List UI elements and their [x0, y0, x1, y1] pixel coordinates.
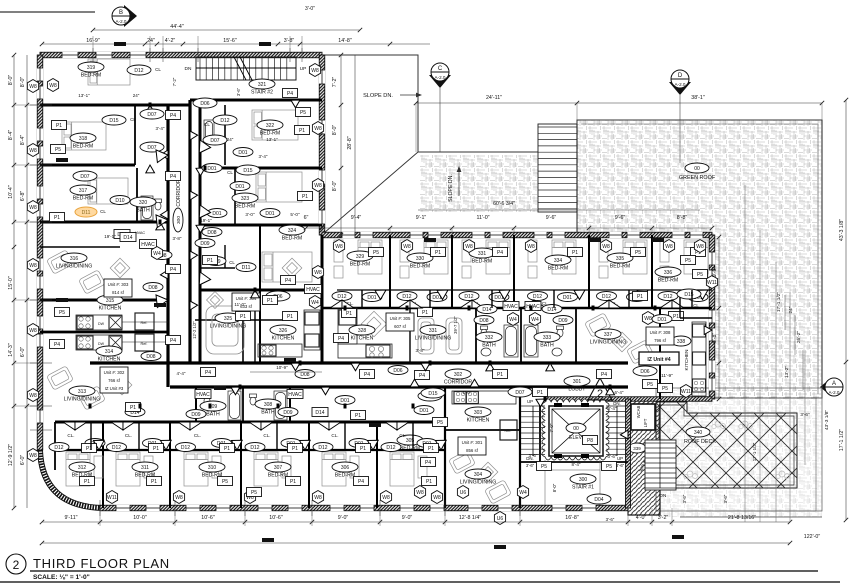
svg-text:6'-8": 6'-8": [20, 191, 26, 202]
svg-text:9'-0": 9'-0": [338, 515, 349, 521]
svg-text:BED-RM: BED-RM: [350, 262, 370, 268]
svg-text:HVAC: HVAC: [504, 304, 518, 310]
bath divider: [242, 320, 244, 363]
sheet bottom border line: [0, 581, 840, 583]
svg-text:KITCHEN: KITCHEN: [99, 306, 122, 312]
svg-text:308: 308: [264, 402, 273, 408]
svg-text:321: 321: [258, 82, 267, 88]
svg-text:9'-4": 9'-4": [351, 215, 362, 221]
svg-text:UP: UP: [527, 399, 533, 404]
svg-text:W8: W8: [433, 495, 441, 501]
sofa living 313: [47, 366, 74, 390]
svg-text:BED-RM: BED-RM: [610, 264, 630, 270]
svg-text:4'-4": 4'-4": [177, 371, 186, 376]
svg-text:P5: P5: [541, 464, 547, 470]
svg-text:796 sf: 796 sf: [654, 338, 667, 343]
table living 325: [206, 306, 244, 354]
svg-text:333: 333: [543, 335, 552, 341]
bed room 323: [256, 172, 302, 202]
svg-text:P1: P1: [360, 446, 366, 452]
svg-text:3'-6": 3'-6": [723, 494, 728, 503]
svg-text:D01: D01: [238, 150, 247, 156]
svg-text:13'-1": 13'-1": [78, 93, 90, 98]
svg-text:8'-0": 8'-0": [552, 483, 557, 492]
wall below room 319: [40, 104, 190, 107]
corridor 302 tags: [201, 368, 216, 377]
vertical corridor 300 walls: [166, 105, 169, 387]
stair 321 diagonal break: [234, 57, 246, 80]
svg-text:BATH: BATH: [261, 410, 275, 416]
svg-text:W4: W4: [531, 317, 539, 323]
svg-text:SLOPE DN.: SLOPE DN.: [363, 93, 393, 99]
bottom dimension chain: [42, 521, 790, 523]
svg-text:323: 323: [241, 196, 250, 202]
svg-text:3'-6": 3'-6": [682, 494, 687, 503]
svg-text:8'-0": 8'-0": [332, 181, 338, 192]
svg-text:15'-0": 15'-0": [8, 276, 14, 290]
svg-text:326: 326: [279, 328, 288, 334]
svg-text:P4: P4: [601, 372, 607, 378]
kitchen divider wall 315/314: [40, 331, 168, 334]
svg-text:3'-0": 3'-0": [245, 212, 255, 217]
door: [536, 399, 545, 407]
svg-text:3'-6": 3'-6": [800, 412, 810, 417]
door: [410, 379, 419, 387]
closet vertical stubs bottom row: [90, 422, 92, 450]
svg-text:D15: D15: [109, 118, 118, 124]
tag cluster below 323: [206, 257, 226, 266]
svg-text:D01: D01: [419, 408, 428, 414]
stair treads east of elevator: [606, 406, 628, 455]
kitchen 338 west wall: [659, 308, 661, 399]
slope roof outline: [322, 55, 538, 152]
svg-text:D08: D08: [300, 372, 309, 378]
svg-text:P1: P1: [428, 446, 434, 452]
room 305/304 area tags: [421, 388, 445, 398]
room 338 kitchen rotated label: [671, 336, 691, 346]
svg-text:W8: W8: [602, 244, 610, 250]
bath fixtures room 305 area: [0, 0, 1, 1]
door: [291, 363, 300, 371]
svg-text:Unit #: 302: Unit #: 302: [104, 370, 125, 375]
P tags west wing: [52, 121, 67, 130]
svg-text:BATH: BATH: [540, 343, 554, 349]
highlighted tag D11 (orange): [75, 207, 97, 217]
svg-text:320: 320: [139, 200, 148, 206]
svg-text:W8: W8: [382, 495, 390, 501]
svg-text:43'-3 1/8": 43'-3 1/8": [824, 410, 830, 431]
svg-text:8'-4": 8'-4": [8, 130, 14, 141]
svg-text:P1: P1: [224, 446, 230, 452]
door: [196, 225, 205, 233]
svg-text:P8: P8: [587, 438, 593, 444]
svg-text:P5: P5: [685, 258, 691, 264]
svg-text:W11: W11: [681, 389, 691, 395]
planter ornaments: [684, 421, 790, 479]
door: [421, 363, 430, 371]
svg-text:3'-6": 3'-6": [529, 453, 538, 458]
svg-text:P1: P1: [346, 311, 352, 317]
door: [160, 210, 168, 219]
svg-text:P5: P5: [55, 147, 61, 153]
svg-text:D09: D09: [283, 410, 292, 416]
svg-text:P1: P1: [153, 446, 159, 452]
tags above baths: [195, 390, 211, 399]
svg-text:15'-6": 15'-6": [223, 38, 237, 44]
svg-text:14'-8": 14'-8": [338, 38, 352, 44]
south band tags under closets: [477, 305, 497, 314]
sofa living 337: [585, 313, 612, 337]
svg-text:122'-0": 122'-0": [804, 534, 821, 540]
svg-text:Ref.: Ref.: [141, 342, 148, 346]
svg-text:D10: D10: [115, 198, 124, 204]
unit label box: [232, 293, 260, 311]
windows south wall: [116, 505, 130, 511]
roof deck tag 340: [686, 427, 710, 437]
svg-text:12'-2 1/2": 12'-2 1/2": [192, 321, 197, 339]
door: [160, 270, 168, 279]
svg-text:P1: P1: [435, 250, 441, 256]
unit label box: [386, 313, 414, 331]
svg-text:325: 325: [224, 316, 233, 322]
svg-text:334: 334: [554, 258, 563, 264]
svg-text:D01: D01: [563, 295, 572, 301]
section marker B A-2.0: [112, 5, 137, 27]
svg-text:332: 332: [485, 335, 494, 341]
bath 308 fixtures: [274, 391, 287, 420]
sofa living 316: [47, 250, 74, 274]
svg-text:D01: D01: [367, 295, 376, 301]
dining table unit 305: [361, 311, 386, 336]
svg-text:A-2.0: A-2.0: [829, 390, 840, 395]
bed room 324: [262, 252, 312, 282]
svg-text:BED-RM: BED-RM: [260, 131, 280, 137]
sofa living 304: [449, 450, 476, 474]
bedroom divider center band: [651, 235, 653, 308]
svg-text:P1: P1: [572, 250, 578, 256]
svg-text:7'-2": 7'-2": [332, 77, 338, 88]
svg-text:8'-4": 8'-4": [572, 462, 581, 467]
wall below room 323: [200, 224, 322, 227]
svg-text:8'-8": 8'-8": [677, 215, 688, 221]
svg-text:P5: P5: [697, 272, 703, 278]
exterior wall west: [37, 55, 43, 450]
top stair area tags: [283, 89, 298, 98]
bedroom divider bottom row: [240, 422, 242, 508]
svg-text:CL: CL: [204, 122, 210, 127]
svg-text:26'-2": 26'-2": [796, 331, 802, 344]
svg-text:3'-6": 3'-6": [236, 87, 241, 96]
bed room 319: [88, 59, 130, 85]
svg-text:331: 331: [429, 328, 438, 334]
svg-text:P1: P1: [151, 479, 157, 485]
svg-text:D14: D14: [547, 307, 556, 313]
svg-text:D14: D14: [482, 307, 491, 313]
svg-text:BED-RM: BED-RM: [472, 259, 492, 265]
slope dn arrow vertical: [458, 170, 460, 196]
closet wall 323: [234, 168, 236, 225]
svg-text:P4: P4: [170, 267, 176, 273]
door: [620, 430, 628, 439]
baths tags: [236, 312, 251, 321]
svg-text:10'-6": 10'-6": [201, 515, 215, 521]
windows east wall: [709, 252, 715, 265]
paver terrace area (light weave): [656, 388, 822, 517]
small solid wall markers: [114, 42, 126, 46]
svg-text:D12: D12: [250, 445, 259, 451]
svg-text:P4: P4: [364, 372, 370, 378]
svg-text:W11: W11: [107, 495, 117, 501]
svg-text:W8: W8: [175, 495, 183, 501]
kitchen 303 south wall: [445, 429, 520, 431]
svg-text:Unit #: 301: Unit #: 301: [462, 440, 483, 445]
wall east of corridor shaft: [199, 100, 202, 363]
svg-text:W8: W8: [29, 84, 37, 90]
svg-text:UP: UP: [300, 66, 307, 72]
svg-text:814 sf: 814 sf: [112, 290, 125, 295]
svg-text:LOBBY: LOBBY: [568, 387, 586, 393]
closet row south wall: [55, 449, 445, 451]
partition kitchen 328: [409, 308, 411, 363]
svg-text:LIVING/DINING: LIVING/DINING: [64, 397, 101, 403]
bath 332/333 divider: [520, 308, 522, 363]
exterior wall south: [100, 505, 628, 511]
svg-text:13'-2": 13'-2": [784, 366, 790, 379]
svg-text:P5: P5: [373, 250, 379, 256]
svg-text:A-2.0: A-2.0: [435, 75, 446, 80]
svg-text:P1: P1: [287, 314, 293, 320]
svg-text:W8: W8: [29, 205, 37, 211]
closet wall 318: [134, 105, 136, 165]
elevator tag 00: [566, 423, 586, 433]
svg-text:Unit #: 303: Unit #: 303: [108, 282, 129, 287]
svg-text:BED-RM: BED-RM: [235, 204, 255, 210]
svg-text:A-2.0: A-2.0: [675, 82, 686, 87]
svg-text:Ref.: Ref.: [141, 321, 148, 325]
door: [251, 290, 260, 298]
svg-text:CL.: CL.: [125, 433, 132, 438]
svg-text:331: 331: [478, 251, 487, 257]
svg-text:P1: P1: [299, 128, 305, 134]
svg-text:D07: D07: [147, 145, 156, 151]
svg-text:9'-6": 9'-6": [615, 215, 626, 221]
top dimension 44-4: [93, 29, 360, 31]
door: [190, 191, 198, 200]
corridor 302 north wall: [90, 361, 628, 364]
bottom row dressers: [94, 456, 103, 478]
door: [486, 363, 495, 371]
roof deck access stair: [645, 440, 676, 490]
left dimension chain: [13, 55, 15, 508]
svg-text:12'-8 1/4": 12'-8 1/4": [459, 515, 481, 521]
svg-text:P5: P5: [606, 464, 612, 470]
svg-text:D12: D12: [54, 445, 63, 451]
exterior stair from green roof: [538, 124, 577, 212]
center band bedroom tags: [333, 240, 344, 253]
svg-text:CL: CL: [229, 260, 235, 265]
kitchen 315 counters: [76, 313, 168, 330]
svg-text:318: 318: [79, 136, 88, 142]
svg-text:CL.: CL.: [194, 433, 201, 438]
svg-text:13'-1": 13'-1": [266, 137, 278, 142]
svg-text:302: 302: [454, 372, 463, 378]
section marker C A-2.0: [429, 63, 451, 88]
svg-text:338: 338: [677, 339, 686, 345]
long dim lines crossing green roof right band: [744, 185, 746, 522]
svg-text:BATH: BATH: [136, 208, 150, 214]
svg-text:10'-6": 10'-6": [269, 515, 283, 521]
svg-text:11'-0": 11'-0": [476, 215, 489, 221]
svg-text:P5: P5: [647, 382, 653, 388]
svg-text:CL.: CL.: [67, 433, 74, 438]
svg-text:BED-RM: BED-RM: [73, 196, 93, 202]
svg-text:D12: D12: [386, 445, 395, 451]
svg-text:P1: P1: [637, 294, 643, 300]
door: [321, 387, 330, 395]
svg-text:322: 322: [266, 123, 275, 129]
svg-text:W8: W8: [29, 263, 37, 269]
svg-text:303: 303: [474, 410, 483, 416]
section marker A A-2.0: [820, 378, 843, 396]
svg-text:U6: U6: [497, 516, 504, 522]
bedroom divider center band: [513, 235, 515, 308]
svg-text:ROOF DECK: ROOF DECK: [684, 439, 716, 445]
svg-text:D07: D07: [210, 138, 219, 144]
svg-text:D12: D12: [464, 294, 473, 300]
svg-text:P4: P4: [419, 373, 425, 379]
svg-text:2: 2: [597, 388, 603, 400]
svg-text:ELEV.: ELEV.: [569, 435, 583, 441]
extension ticks across exterior walls: [30, 104, 52, 106]
svg-text:P4: P4: [358, 479, 364, 485]
svg-text:335: 335: [616, 256, 625, 262]
svg-text:43'-3 1/8": 43'-3 1/8": [839, 219, 845, 241]
wall room 316 top: [40, 246, 120, 248]
svg-text:CORRIDOR: CORRIDOR: [176, 179, 182, 207]
big triangle sheet callout 2: [588, 378, 612, 400]
svg-text:P1: P1: [207, 258, 213, 264]
svg-text:P4: P4: [170, 174, 176, 180]
bath 309/308 walls: [195, 388, 197, 422]
svg-text:HVAC: HVAC: [526, 304, 540, 310]
green roof border: [577, 120, 822, 398]
svg-text:D01: D01: [235, 184, 244, 190]
corridor 302 south wall: [170, 385, 628, 388]
svg-text:D12: D12: [602, 294, 611, 300]
svg-text:BED-RM: BED-RM: [73, 144, 93, 150]
svg-text:HVAC: HVAC: [141, 242, 155, 248]
kitchen 326 counters: [258, 310, 320, 357]
svg-text:300: 300: [176, 216, 182, 224]
lobby north wall: [545, 397, 712, 402]
svg-text:P1: P1: [673, 314, 679, 320]
svg-text:5'-0": 5'-0": [290, 212, 300, 217]
svg-text:315: 315: [106, 298, 115, 304]
svg-text:P1: P1: [54, 215, 60, 221]
wheelchair lift box: [631, 404, 655, 430]
svg-text:3'-6": 3'-6": [608, 454, 617, 459]
svg-text:301: 301: [573, 379, 582, 385]
svg-text:Unit #: 308: Unit #: 308: [650, 330, 671, 335]
center band beds: [358, 240, 382, 274]
unit label box: [646, 327, 674, 345]
top dimension chain: [42, 43, 430, 45]
exterior wall north of center band: [322, 232, 712, 238]
svg-text:THIRD FLOOR PLAN: THIRD FLOOR PLAN: [33, 556, 170, 571]
bath 333 east wall: [575, 308, 577, 363]
svg-text:CORRIDOR: CORRIDOR: [444, 380, 472, 386]
svg-text:P4: P4: [425, 460, 431, 466]
svg-text:D: D: [678, 73, 683, 79]
svg-text:LIVING/DINING: LIVING/DINING: [460, 480, 497, 486]
svg-text:BED-RM: BED-RM: [410, 264, 430, 270]
svg-text:BATH: BATH: [206, 412, 220, 418]
bedroom divider center band: [588, 235, 590, 308]
svg-text:W8: W8: [49, 83, 57, 89]
extension lines left: [14, 104, 40, 106]
svg-text:11'-9": 11'-9": [661, 373, 673, 379]
svg-text:D07: D07: [147, 112, 156, 118]
overall bottom dimension: [42, 542, 790, 544]
bath 327 wall: [224, 245, 226, 268]
svg-text:D12: D12: [402, 294, 411, 300]
exterior stair treads: [538, 127, 577, 209]
extension lines bottom: [99, 508, 101, 526]
svg-text:21'-8 13/16": 21'-8 13/16": [728, 515, 756, 521]
svg-text:3'-0": 3'-0": [305, 6, 315, 12]
kitchen 328 counters: [338, 308, 392, 358]
bedroom divider bottom row: [102, 422, 104, 508]
center band dressers: [334, 240, 343, 278]
bath 308-309 north wall: [195, 319, 290, 321]
kitchen 314 counters: [76, 334, 168, 351]
svg-text:UP: UP: [617, 456, 623, 461]
svg-text:D06: D06: [200, 101, 209, 107]
unit label box: [104, 279, 132, 297]
svg-text:607 sf: 607 sf: [394, 324, 407, 329]
svg-text:8'-4": 8'-4": [608, 406, 617, 411]
green roof tag 00: [685, 163, 709, 173]
svg-text:P4: P4: [338, 336, 344, 342]
elevator door marks: [554, 403, 562, 407]
stair 321 treads (top west wing): [196, 57, 296, 80]
svg-text:766 sf: 766 sf: [108, 378, 121, 383]
svg-text:P4: P4: [497, 250, 503, 256]
svg-text:CL.: CL.: [399, 433, 406, 438]
bath 320 fixtures: [141, 196, 153, 220]
svg-text:24": 24": [227, 137, 234, 142]
svg-text:LIVING/DINING: LIVING/DINING: [56, 264, 93, 270]
bottom row bedroom tags: [106, 491, 117, 504]
svg-text:3'-6": 3'-6": [526, 463, 535, 468]
svg-text:D12: D12: [112, 445, 121, 451]
svg-text:339: 339: [633, 446, 641, 451]
bath 327 south wall: [200, 267, 235, 269]
svg-text:W11: W11: [707, 280, 717, 286]
svg-text:KITCHEN: KITCHEN: [272, 336, 295, 342]
bath 332 west wall: [475, 308, 477, 363]
door: [156, 222, 165, 230]
second left dim chain: [26, 55, 28, 508]
door: [190, 251, 198, 260]
svg-text:19'-1": 19'-1": [104, 234, 116, 239]
svg-text:10'-0": 10'-0": [133, 515, 147, 521]
sheet top-left border line: [0, 11, 95, 13]
svg-text:D09: D09: [200, 241, 209, 247]
svg-text:D12: D12: [220, 118, 229, 124]
bedroom divider center band: [451, 235, 453, 308]
svg-text:BED-RM: BED-RM: [335, 473, 355, 479]
